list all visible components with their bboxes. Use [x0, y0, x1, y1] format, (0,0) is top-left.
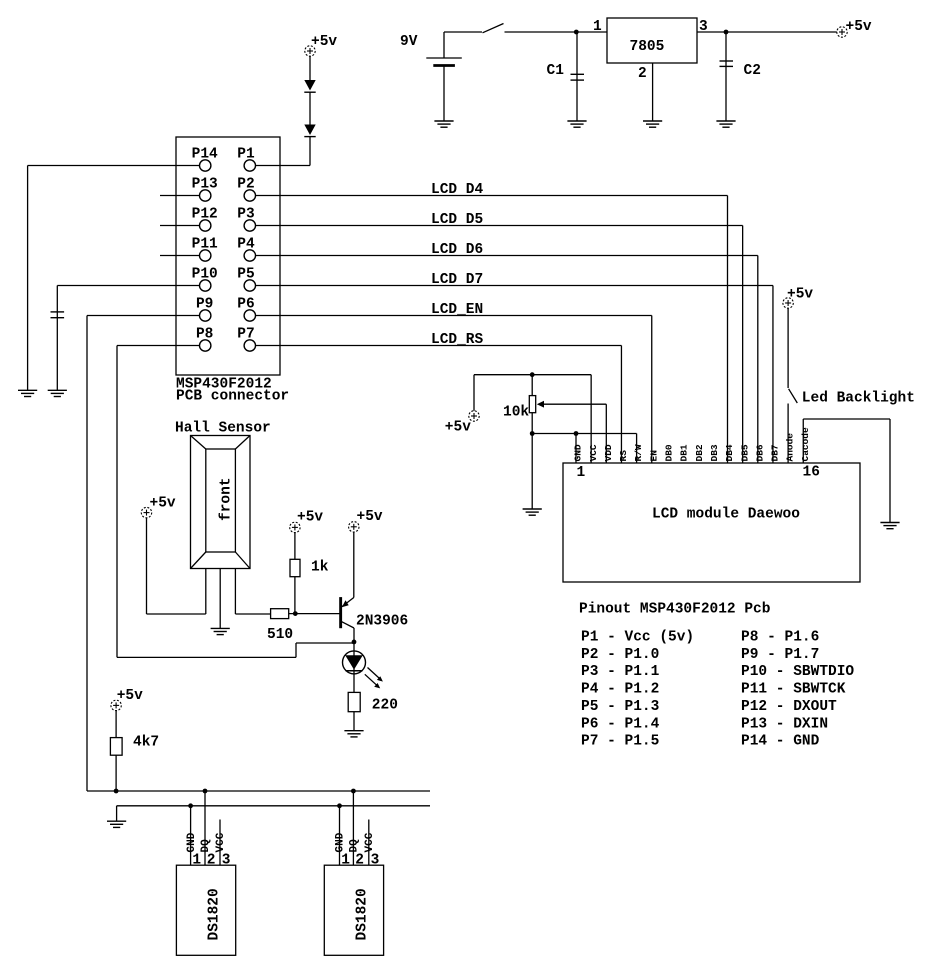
- svg-text:P14: P14: [192, 147, 218, 163]
- temperature sensor U5 DS1820: [324, 865, 383, 955]
- svg-text:2N3906: 2N3906: [356, 614, 408, 630]
- svg-text:+5v: +5v: [117, 688, 143, 704]
- svg-text:DB1: DB1: [679, 444, 690, 461]
- svg-text:DQ: DQ: [200, 839, 212, 853]
- svg-text:Cacode: Cacode: [800, 427, 811, 462]
- svg-text:VDD: VDD: [603, 444, 614, 461]
- svg-text:LCD D4: LCD D4: [431, 182, 484, 198]
- svg-text:P6: P6: [237, 297, 254, 313]
- svg-text:RS: RS: [618, 450, 629, 462]
- svg-text:R/W: R/W: [633, 444, 644, 461]
- svg-text:3: 3: [222, 853, 231, 869]
- junction U4 GND: [188, 803, 193, 808]
- ground battery: [434, 121, 453, 127]
- svg-text:Hall Sensor: Hall Sensor: [175, 421, 271, 437]
- svg-text:Anode: Anode: [785, 433, 796, 462]
- wire R2 to base node: [289, 613, 340, 615]
- connector pin P2: [237, 177, 255, 202]
- wire Cacode pin to ground: [803, 419, 890, 523]
- svg-text:P2 - P1.0: P2 - P1.0: [581, 647, 659, 663]
- svg-text:+5v: +5v: [787, 287, 813, 303]
- svg-text:LCD D5: LCD D5: [431, 212, 483, 228]
- svg-text:P5 - P1.3: P5 - P1.3: [581, 699, 659, 715]
- svg-text:PCB connector: PCB connector: [176, 389, 289, 405]
- svg-text:P2: P2: [237, 177, 254, 193]
- potentiometer R6 10k: [503, 375, 606, 509]
- svg-text:DS1820: DS1820: [206, 888, 222, 940]
- svg-text:P13 - DXIN: P13 - DXIN: [741, 716, 828, 732]
- U5 pin 3 VCC stub: [368, 820, 370, 866]
- wire +5v to backlight switch: [787, 309, 789, 388]
- svg-text:LCD_RS: LCD_RS: [431, 332, 484, 348]
- wire stub P12: [160, 225, 200, 227]
- wire regulator output: [697, 31, 837, 33]
- temperature sensor U4 DS1820: [176, 865, 235, 955]
- svg-text:+5v: +5v: [311, 34, 337, 50]
- svg-text:P11 - SBWTCK: P11 - SBWTCK: [741, 682, 846, 698]
- junction pot bottom: [530, 431, 535, 436]
- svg-text:Led Backlight: Led Backlight: [802, 391, 915, 407]
- connector pin P8: [196, 327, 213, 352]
- U4 pin 1 GND wire: [190, 806, 192, 865]
- svg-text:2: 2: [638, 66, 647, 82]
- ground LED: [344, 731, 363, 737]
- svg-text:DB7: DB7: [770, 444, 781, 461]
- transistor Q1 2N3906: [340, 532, 409, 642]
- svg-text:DB0: DB0: [664, 444, 675, 461]
- svg-text:DB6: DB6: [754, 444, 765, 461]
- pinout right column text: [741, 630, 854, 750]
- svg-text:LCD_EN: LCD_EN: [431, 302, 483, 318]
- svg-text:P9 - P1.7: P9 - P1.7: [741, 647, 819, 663]
- svg-text:front: front: [219, 477, 235, 521]
- svg-text:P6 - P1.4: P6 - P1.4: [581, 716, 660, 732]
- connector pin P7: [237, 327, 255, 352]
- power +5v hall: [141, 496, 176, 518]
- svg-text:P4 - P1.2: P4 - P1.2: [581, 682, 659, 698]
- power +5v output: [837, 19, 872, 37]
- U4 pin numbers: [192, 853, 230, 869]
- wire hall pin 3 to resistor 510: [234, 569, 236, 615]
- svg-text:1k: 1k: [311, 560, 329, 576]
- ground regulator pin 2: [643, 121, 662, 127]
- svg-text:P7 - P1.5: P7 - P1.5: [581, 734, 659, 750]
- switch S2 Led Backlight: [789, 389, 798, 403]
- svg-text:LCD D6: LCD D6: [431, 242, 483, 258]
- svg-text:C2: C2: [744, 63, 761, 79]
- ground P14: [18, 390, 37, 396]
- svg-text:+5v: +5v: [357, 509, 383, 525]
- svg-text:P10: P10: [192, 267, 218, 283]
- svg-text:1: 1: [593, 19, 602, 35]
- U5 pin 1 GND wire: [339, 806, 341, 865]
- junction R5 to DQ rail: [114, 789, 119, 794]
- svg-text:+5v: +5v: [846, 19, 872, 35]
- power +5v LCD: [445, 411, 479, 436]
- junction LED node: [352, 640, 357, 645]
- svg-text:2: 2: [355, 853, 364, 869]
- wire diode chain to pin P1: [256, 137, 310, 166]
- svg-text:EN: EN: [648, 450, 659, 462]
- wire switch to Anode pin: [787, 404, 789, 464]
- connector pin P3: [237, 207, 255, 232]
- U4 pin 2 DQ wire: [204, 791, 206, 865]
- ground C2: [716, 121, 735, 127]
- U5 pin 2 DQ wire: [352, 791, 354, 865]
- connector pin P11: [192, 237, 218, 262]
- svg-text:P14 - GND: P14 - GND: [741, 734, 820, 750]
- svg-text:DB3: DB3: [709, 444, 720, 461]
- regulator U1 7805: [607, 18, 697, 63]
- connector pin P10: [192, 267, 218, 292]
- resistor R2 510: [267, 609, 293, 643]
- ground sensor rail: [107, 821, 126, 827]
- junction U5 DQ: [351, 789, 356, 794]
- wire DQ rail: [87, 790, 430, 792]
- svg-text:1: 1: [192, 853, 201, 869]
- wire pin 2 to ground: [652, 63, 654, 121]
- svg-text:Pinout MSP430F2012 Pcb: Pinout MSP430F2012 Pcb: [579, 602, 771, 618]
- svg-text:P9: P9: [196, 297, 213, 313]
- wire stub P11: [160, 255, 200, 257]
- wire battery to switch: [444, 31, 482, 33]
- wire hall pin 1 to +5v: [147, 518, 206, 614]
- LCD module U2 Daewoo: [563, 463, 860, 582]
- wire switch to regulator pin 1: [505, 31, 608, 33]
- wire P9 to DQ rail: [87, 316, 200, 792]
- diode D1: [304, 56, 315, 92]
- switch S1: [483, 24, 504, 33]
- svg-text:P1 - Vcc (5v): P1 - Vcc (5v): [581, 630, 694, 646]
- svg-text:1: 1: [341, 853, 350, 869]
- connector pin P12: [192, 207, 218, 232]
- svg-text:+5v: +5v: [297, 510, 323, 526]
- resistor R3 1k: [290, 533, 329, 614]
- svg-text:GND: GND: [335, 832, 347, 852]
- power +5v backlight: [783, 287, 814, 309]
- svg-text:P10 - SBWTDIO: P10 - SBWTDIO: [741, 664, 854, 680]
- svg-text:DS1820: DS1820: [354, 888, 370, 940]
- ground pot: [523, 509, 542, 515]
- svg-text:P7: P7: [237, 327, 254, 343]
- svg-text:510: 510: [267, 627, 293, 643]
- svg-text:DB5: DB5: [739, 444, 750, 461]
- svg-text:4k7: 4k7: [133, 735, 159, 751]
- svg-text:VCC: VCC: [215, 832, 227, 852]
- svg-text:GND: GND: [186, 832, 198, 852]
- wire P8 to LED node: [117, 346, 354, 658]
- power +5v diode chain: [305, 34, 338, 56]
- wire P2 to LCD DB4 / net LCD D4: [256, 196, 728, 464]
- wire P14 to ground: [28, 166, 200, 391]
- svg-text:DB4: DB4: [724, 444, 735, 461]
- U4 pin labels: [186, 832, 227, 852]
- svg-text:VCC: VCC: [588, 444, 599, 461]
- connector J1 MSP430F2012 PCB connector: [176, 137, 289, 405]
- ground C3: [48, 390, 67, 396]
- svg-text:P13: P13: [192, 177, 218, 193]
- wire +5v to VCC pin rail: [474, 375, 591, 463]
- svg-text:P5: P5: [237, 267, 254, 283]
- pinout left column text: [581, 630, 694, 750]
- svg-text:DB2: DB2: [694, 444, 705, 461]
- connector pin P13: [192, 177, 218, 202]
- svg-text:VCC: VCC: [364, 832, 376, 852]
- svg-text:P12 - DXOUT: P12 - DXOUT: [741, 699, 837, 715]
- junction GND pin: [574, 431, 579, 436]
- wire P3 to LCD DB5 / net LCD D5: [256, 226, 743, 464]
- svg-text:+5v: +5v: [445, 420, 471, 436]
- power +5v Q1 emitter: [349, 509, 383, 532]
- U5 pin numbers: [341, 853, 379, 869]
- power +5v R3: [290, 510, 324, 533]
- junction node VOUT: [724, 30, 729, 35]
- svg-text:P4: P4: [237, 237, 255, 253]
- U4 pin 3 VCC stub: [219, 820, 221, 866]
- svg-text:LCD module Daewoo: LCD module Daewoo: [652, 507, 800, 523]
- svg-text:P3: P3: [237, 207, 254, 223]
- LED D3: [343, 642, 366, 693]
- svg-text:LCD D7: LCD D7: [431, 272, 483, 288]
- junction pot top: [530, 372, 535, 377]
- junction base node: [293, 611, 298, 616]
- power +5v R5: [111, 688, 143, 711]
- svg-text:P1: P1: [237, 147, 255, 163]
- svg-text:P12: P12: [192, 207, 218, 223]
- junction node VIN: [574, 30, 579, 35]
- wire GND rail: [117, 806, 430, 821]
- resistor R5 4k7: [110, 711, 159, 791]
- svg-text:2: 2: [207, 853, 216, 869]
- resistor R4 220: [348, 692, 398, 730]
- junction U5 GND: [337, 803, 342, 808]
- battery B1 9V: [400, 32, 462, 121]
- svg-text:DQ: DQ: [349, 839, 361, 853]
- connector pin P5: [237, 267, 255, 292]
- svg-text:P11: P11: [192, 237, 218, 253]
- ground C1: [567, 121, 586, 127]
- ground backlight cathode: [880, 523, 899, 529]
- svg-text:220: 220: [372, 698, 398, 714]
- wire P6 to LCD EN / net LCD_EN: [256, 316, 652, 464]
- wire P5 to LCD DB7 / net LCD D7: [256, 286, 773, 464]
- svg-text:+5v: +5v: [150, 496, 176, 512]
- wire P10 to capacitor C3: [57, 286, 199, 391]
- svg-text:P3 - P1.1: P3 - P1.1: [581, 664, 660, 680]
- connector pin P9: [196, 297, 213, 322]
- svg-text:P8 - P1.6: P8 - P1.6: [741, 630, 819, 646]
- svg-text:GND: GND: [573, 444, 584, 461]
- svg-text:10k: 10k: [503, 405, 529, 421]
- diode D2: [304, 92, 315, 136]
- svg-text:1: 1: [577, 465, 586, 481]
- connector pin P6: [237, 297, 255, 322]
- wire P4 to LCD DB6 / net LCD D6: [256, 256, 758, 464]
- capacitor C2: [720, 32, 761, 121]
- svg-text:7805: 7805: [630, 39, 665, 55]
- connector pin P14: [192, 147, 218, 172]
- svg-text:C1: C1: [547, 63, 565, 79]
- connector pin P1: [237, 147, 255, 172]
- wire hall pin 2 to ground: [219, 569, 221, 629]
- wire pot bottom to GND and R/W pins: [532, 434, 636, 464]
- connector pin P4: [237, 237, 255, 262]
- svg-text:3: 3: [371, 853, 380, 869]
- capacitor C1: [547, 32, 585, 121]
- wire stub P13: [160, 195, 200, 197]
- LED emission arrows: [365, 668, 383, 689]
- svg-text:16: 16: [803, 464, 820, 480]
- wire P7 to LCD RS / net LCD_RS: [256, 346, 622, 464]
- U5 pin labels: [335, 832, 376, 852]
- svg-text:P8: P8: [196, 327, 213, 343]
- hall sensor U3: [191, 436, 251, 569]
- svg-text:9V: 9V: [400, 34, 418, 50]
- junction U4 DQ: [203, 789, 208, 794]
- capacitor C3 on P10: [51, 312, 65, 318]
- ground hall: [211, 628, 230, 634]
